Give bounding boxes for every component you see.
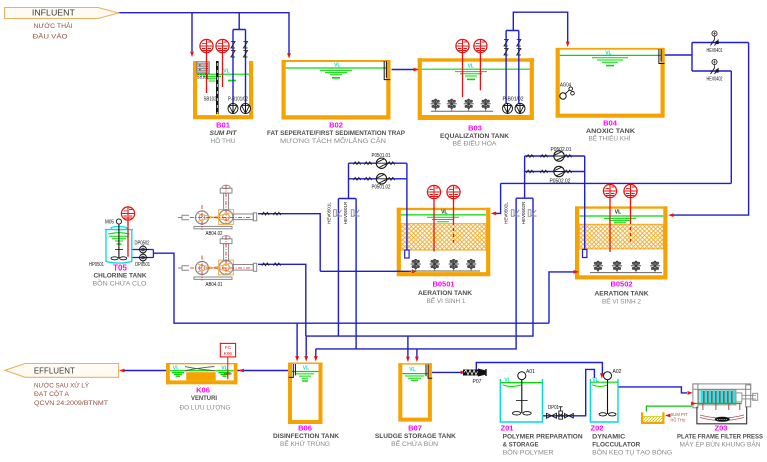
svg-text:VL: VL [605,51,611,57]
pipe P0502 suction manifold into B0501 [496,156,732,213]
effluent note [34,381,108,408]
svg-text:AERATION TANK: AERATION TANK [418,290,472,297]
svg-text:B01: B01 [216,121,230,130]
dosing pump DP0502 [138,245,148,255]
vertical valve labels [327,201,527,224]
svg-text:BỂ VI SINH 2: BỂ VI SINH 2 [602,297,641,306]
svg-text:K06: K06 [224,351,233,356]
svg-text:FAT SEPERATE/FIRST SEDIMENTATI: FAT SEPERATE/FIRST SEDIMENTATION TRAP [267,130,406,137]
svg-text:A02: A02 [613,369,622,375]
svg-text:HEV0402: HEV0402 [707,76,723,82]
svg-text:VL: VL [468,64,474,70]
svg-text:B03: B03 [468,123,482,132]
pump tag B03 no1 [456,39,469,52]
effluent arrow [5,364,119,378]
svg-text:AERATION TANK: AERATION TANK [595,290,649,297]
arrows into B07 [406,357,419,362]
pump tag SB102 [216,39,229,52]
pipe P07 to Z02 [476,363,602,375]
svg-text:P07: P07 [473,379,482,385]
label B04 [586,118,635,142]
tank B07 [398,363,432,421]
svg-text:ANOXIC TANK: ANOXIC TANK [586,128,635,135]
pipe B07 to P07 [432,371,461,373]
pipe B01 pump risers [233,13,246,104]
arrow into P07 [461,371,466,375]
valve HEV0401 [710,31,720,46]
svg-text:HEV0501R: HEV0501R [343,201,348,224]
svg-text:B07: B07 [408,424,422,433]
pipe Z02 to Z03 [618,387,687,393]
water line B03 [422,69,530,79]
svg-text:P-B01/02: P-B01/02 [503,97,524,103]
tank B03 [418,58,534,120]
pump SB101 stem [206,53,208,93]
arrow into B02 [287,53,291,58]
screen box SB101 [197,62,209,74]
pump tag T05 [121,207,134,257]
valve and pump DP01 [547,407,574,419]
pipe P0502 branch lower [525,171,585,173]
svg-text:HEV0502L: HEV0502L [504,202,509,224]
pump P-B03.02 [515,103,525,114]
label Z03 [677,424,764,449]
svg-text:VL: VL [592,377,598,383]
mixer A02 [599,372,616,416]
arrow into K06 [239,369,244,373]
svg-text:QCVN 24:2009/BTNMT: QCVN 24:2009/BTNMT [34,400,108,407]
pipe B0502 sparger drop [584,156,586,250]
svg-text:VL: VL [303,365,309,371]
blower P0501.01 [353,158,394,168]
label T05 [93,263,147,287]
svg-text:DISINFECTION TANK: DISINFECTION TANK [273,433,339,440]
influent note [33,21,73,40]
arrow B0502 air [574,270,579,274]
svg-text:HEV0501L: HEV0501L [327,202,332,224]
weir pipe B06 [289,364,296,377]
svg-text:A01: A01 [526,369,535,375]
svg-text:POLYMER PREPARATION: POLYMER PREPARATION [503,434,583,441]
level gauge B01 [216,61,219,122]
sparger B0501 [405,250,409,258]
svg-text:FLOCCULATOR: FLOCCULATOR [592,441,640,448]
VL labels [173,51,612,384]
pipe bus2 [306,198,533,336]
svg-text:EFFLUENT: EFFLUENT [34,366,76,376]
water line B07 [402,374,428,381]
svg-text:NƯỚC SAU XỬ LÝ: NƯỚC SAU XỬ LÝ [34,381,90,390]
svg-text:VL: VL [334,63,340,69]
svg-text:B04: B04 [603,118,618,127]
pipe HEV0501R drop [355,199,357,349]
svg-text:BỂ KHỬ TRÙNG: BỂ KHỬ TRÙNG [280,439,330,448]
tank T05 [105,227,133,264]
valve HEV0402 [710,59,720,74]
pipe B03 pump risers [506,12,568,103]
label B07 [375,424,456,449]
svg-text:SB102: SB102 [204,97,217,103]
svg-text:ĐẠT CỘT A: ĐẠT CỘT A [34,389,70,398]
blower P0502.02 [526,166,571,176]
water line B04 [560,55,661,65]
pump SB102 stem [222,53,224,87]
svg-text:T05: T05 [113,263,127,272]
arrow into tray [665,414,670,418]
arrow into B04 [566,42,570,47]
label B02 [267,121,406,145]
valve HEV0501L [334,210,342,217]
svg-text:SUM PIT: SUM PIT [210,130,238,137]
sparger B0502 [583,250,587,258]
blower P0502.01 [526,151,571,161]
pump tags B0501 [427,185,460,251]
svg-text:VL: VL [173,366,179,372]
dosing pump DP0501 [138,253,148,263]
arrows into B06 [295,356,318,361]
svg-text:VL: VL [409,367,415,373]
svg-text:VL: VL [504,378,510,384]
mixer AG04 [560,87,575,99]
svg-text:FC: FC [225,345,232,350]
valve HEV0502R [528,210,536,217]
pump tags B0502 [603,184,637,252]
weir pipe B02 [384,61,390,80]
arrow at effluent [119,369,124,373]
svg-text:P-B101/02: P-B101/02 [228,97,248,103]
diffusers B0501 [409,259,480,271]
pump P-B101 [228,103,238,114]
pipe B02 outlet [392,69,418,71]
svg-text:Z01: Z01 [501,424,514,433]
tank B02 [282,60,391,120]
filter press Z03 [692,384,758,424]
label B01 [210,121,238,145]
pipe influent header [119,13,290,54]
svg-text:AG04: AG04 [560,83,571,89]
mixer A01 [512,372,531,415]
pipe HEV0501L drop [337,199,339,337]
arrow into Z03 [688,391,693,395]
arrow into B01 [190,52,194,57]
svg-text:INFLUENT: INFLUENT [32,7,76,17]
arrow into Z03 feed green [691,402,696,406]
media bed B0502 [579,224,663,249]
svg-text:P0501.01: P0501.01 [372,153,391,159]
svg-text:P0501.02: P0501.02 [372,185,391,191]
svg-text:SLUDGE STORAGE TANK: SLUDGE STORAGE TANK [375,433,456,440]
arrow into B03 [414,68,419,72]
pump P07 [463,369,486,377]
diffusers B0502 [590,261,662,273]
arrow into B0501 right [491,212,496,216]
svg-text:ĐO LƯU LƯỢNG: ĐO LƯU LƯỢNG [180,404,231,411]
influent arrow [5,7,119,18]
svg-text:DYNAMIC: DYNAMIC [592,434,625,441]
sump tray Z03 [641,412,665,424]
svg-text:CHLORINE TANK: CHLORINE TANK [94,272,147,279]
pipe AB0402 discharge [258,214,411,272]
label Z02 [591,424,673,457]
svg-text:B0502: B0502 [610,279,632,288]
svg-text:DP0501: DP0501 [135,262,150,268]
VL labels black [441,210,621,216]
arrow into B0502 right [668,213,673,217]
svg-text:MƯƠNG TÁCH MỠ/LẮNG CẬN: MƯƠNG TÁCH MỠ/LẮNG CẬN [280,136,386,145]
label K06 [180,385,231,411]
pipe P0502 branch upper [525,155,585,157]
svg-text:AB04.01: AB04.01 [206,282,223,288]
svg-text:VL: VL [441,210,447,216]
pump P-B03.01 [503,103,513,114]
flex B03 risers [504,40,521,56]
svg-text:P0502.01: P0502.01 [551,147,572,153]
flume K06 [166,363,238,384]
pipe B06 inlet drops [297,323,316,358]
svg-text:P0502.02: P0502.02 [550,179,571,185]
pipe P0501 branches [338,163,407,250]
valve HEV0502L [511,210,519,217]
green pipe Z03 to tray [646,406,692,411]
water line B01 [197,74,249,81]
arrow B0501 air [412,269,417,273]
label B0502 [595,279,649,305]
svg-text:VENTURI: VENTURI [191,395,217,402]
tank Z02 [590,379,618,422]
svg-text:DP01: DP01 [548,405,559,411]
blower P0501.02 [353,174,394,184]
svg-text:BỂ CHỨA BÙN: BỂ CHỨA BÙN [391,439,438,448]
svg-text:BỂ VI SINH 1: BỂ VI SINH 1 [427,296,466,305]
sump pit label [671,412,688,424]
svg-text:B02: B02 [329,121,343,130]
svg-text:VL: VL [223,69,229,75]
tank B04 [556,48,665,118]
pipe B07 inlet drops [408,336,417,358]
label B03 [440,123,509,147]
svg-text:EQUALIZATION TANK: EQUALIZATION TANK [440,133,509,140]
weir pipe B07 [426,365,432,379]
svg-text:DP0502: DP0502 [135,241,150,247]
pump tag B03 no2 [474,39,487,52]
svg-text:K06: K06 [196,385,210,394]
valve HEV0501R [351,210,359,217]
svg-text:PLATE FRAME FILTER PRESS: PLATE FRAME FILTER PRESS [677,434,764,441]
water line B0502 [579,216,663,223]
label Z01 [501,424,583,457]
water line B0501 [401,215,486,222]
diffusers B03 [431,99,494,112]
svg-text:HP0501: HP0501 [89,262,104,268]
pipe bus3 [316,198,516,349]
svg-text:SUM PIT: SUM PIT [671,412,688,418]
blower AB0402 [178,185,281,230]
tank B0502 [575,206,668,279]
pump P-B102 [241,103,251,114]
pipe chlorine line T05 to B06 [153,253,549,323]
label B06 [273,424,339,449]
svg-text:HEV0502R: HEV0502R [521,201,526,224]
pipe B0502 air feed [549,272,574,323]
water line K06 [170,371,234,377]
mixer M05 [111,219,127,260]
svg-text:AB04.02: AB04.02 [206,231,223,237]
blower AB0401 [178,236,281,281]
svg-text:NƯỚC THẢI: NƯỚC THẢI [34,21,73,30]
water line B06 [292,372,319,382]
svg-text:SB101: SB101 [197,75,209,81]
tank B01 [193,61,253,119]
svg-text:VL: VL [615,210,621,216]
venturi X [185,367,215,371]
tank Z01 [500,379,542,422]
equipment small labels [89,48,723,411]
water line B02 [286,68,387,78]
weir pipe B04 [659,49,665,63]
pipe DP01 line [542,369,594,415]
pump stems B03 [463,53,481,97]
pipe T05 dosing [132,250,154,258]
tank B06 [288,363,323,425]
svg-text:& STORAGE: & STORAGE [503,441,540,448]
svg-text:MÁY ÉP BÙN KHUNG BẢN: MÁY ÉP BÙN KHUNG BẢN [680,439,761,448]
media bed B0501 [401,224,486,250]
pump tag SB101 [200,39,213,52]
svg-text:HỒ THU: HỒ THU [671,417,686,424]
pipe B04 outlet and HEV branches [665,43,749,216]
svg-text:M05: M05 [105,220,114,226]
svg-text:B06: B06 [298,424,312,433]
flex B01 risers [231,42,248,58]
svg-text:Z03: Z03 [715,424,728,433]
svg-text:B0501: B0501 [432,279,454,288]
svg-text:VL: VL [221,366,227,372]
svg-text:Z02: Z02 [591,424,604,433]
pipe effluent line [124,370,288,372]
pipe AB0401 discharge [258,264,306,336]
svg-text:HEV0401: HEV0401 [707,48,723,54]
FC box [220,343,235,379]
arrow into Z02 [600,373,604,378]
tank B0501 [397,208,491,276]
label B0501 [418,279,472,305]
